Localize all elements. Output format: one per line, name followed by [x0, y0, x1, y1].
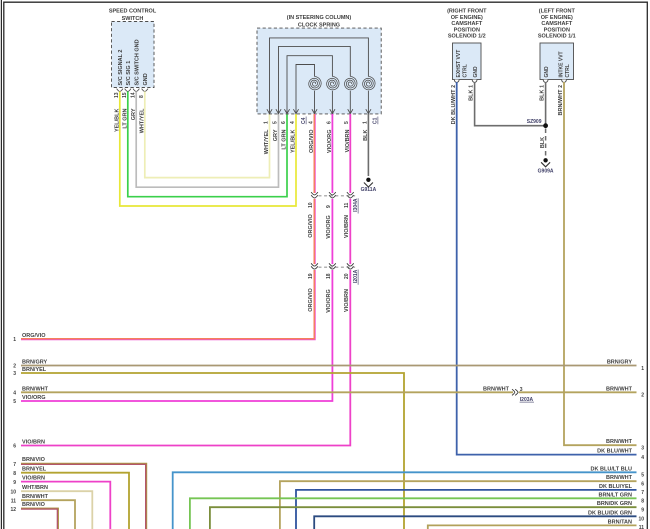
- wire VIO/ORG from I201A down and left to left edge (wire 5): [21, 270, 332, 401]
- svg-text:OF ENGINE): OF ENGINE): [541, 15, 573, 21]
- connector I304A hooks on VIO/ORG: [329, 192, 336, 198]
- wire r7 DK BLU/YEL right edge to bottom edge: [296, 490, 637, 529]
- connector I201A hooks on VIO/ORG: [329, 263, 336, 269]
- label INTKE VVT CTRL: [559, 51, 572, 77]
- svg-text:6: 6: [281, 121, 287, 124]
- solenoid 1/1 pin bump 1: [543, 80, 548, 83]
- wire WHT/YEL switch pin8 to clock spring pin1: [145, 91, 270, 177]
- svg-text:POSITION: POSITION: [454, 27, 480, 33]
- svg-text:19: 19: [308, 273, 314, 279]
- wire BLK clock spring pin1 to ground: [367, 114, 369, 176]
- svg-text:5: 5: [272, 121, 278, 124]
- page frame outer edge line: [0, 0, 2, 529]
- wire 4 BRN/WHT connector I203A to right edge: [519, 391, 637, 393]
- wire YEL/BLK switch pin13 to clock spring pin4: [120, 91, 296, 206]
- svg-text:VIO/ORG: VIO/ORG: [326, 289, 332, 313]
- wire 3 BRN/YEL left edge to bottom edge: [21, 373, 404, 529]
- svg-text:BRN/YEL: BRN/YEL: [22, 367, 47, 373]
- wire r9 BRN/DK GRN right edge to bottom edge: [210, 507, 637, 529]
- svg-text:(RIGHT FRONT: (RIGHT FRONT: [447, 9, 487, 15]
- svg-text:VIO/ORG: VIO/ORG: [22, 395, 46, 401]
- coil 2: [327, 76, 339, 89]
- svg-text:S/C SIGNAL 2: S/C SIGNAL 2: [118, 50, 124, 86]
- wire r11 BRN/TAN right edge to bottom edge: [428, 525, 637, 529]
- wire ORG/VIO between I304A and I201A: [314, 199, 316, 264]
- svg-text:WHT/BRN: WHT/BRN: [22, 485, 48, 491]
- svg-text:11: 11: [11, 498, 17, 504]
- svg-text:LT GRN: LT GRN: [282, 129, 288, 149]
- svg-text:BRN/LT GRN: BRN/LT GRN: [598, 492, 632, 498]
- svg-text:1: 1: [13, 337, 16, 343]
- svg-text:3: 3: [13, 371, 16, 377]
- svg-text:3: 3: [641, 446, 644, 452]
- svg-text:(LEFT FRONT: (LEFT FRONT: [539, 9, 576, 15]
- clock spring internal wire coil1 loop: [296, 65, 315, 114]
- svg-text:1: 1: [362, 121, 368, 124]
- wire BLK solenoid 1/1 pin1 to splice SZ909: [545, 82, 547, 126]
- svg-text:BRN/GRY: BRN/GRY: [22, 360, 47, 366]
- svg-text:4: 4: [13, 391, 16, 397]
- svg-text:SWITCH: SWITCH: [122, 16, 144, 22]
- svg-text:10: 10: [638, 517, 644, 523]
- svg-text:1: 1: [641, 366, 644, 372]
- solenoid 1/1 title: [538, 9, 576, 40]
- svg-text:BRN/WHT: BRN/WHT: [22, 494, 49, 500]
- connector I201A hooks on VIO/BRN: [347, 263, 354, 269]
- svg-text:VIO/BRN: VIO/BRN: [344, 215, 350, 238]
- svg-text:VIO/ORG: VIO/ORG: [326, 215, 332, 239]
- switch pin hook 15: [125, 89, 131, 92]
- svg-text:3: 3: [520, 387, 523, 393]
- svg-text:GND: GND: [143, 73, 149, 85]
- svg-text:OF ENGINE): OF ENGINE): [451, 15, 483, 21]
- clock spring internal wire coil2 bottom lead: [331, 91, 333, 114]
- svg-text:11: 11: [344, 202, 350, 208]
- svg-text:BRN/VIO: BRN/VIO: [22, 457, 46, 463]
- switch pin hook 14: [133, 89, 139, 92]
- wire r5 DK BLU/LT BLU right edge to bottom edge: [173, 472, 637, 529]
- coil 1: [309, 76, 321, 89]
- solenoid 1/2 box: [453, 43, 482, 80]
- svg-text:7: 7: [13, 462, 16, 468]
- splice SZ909: [543, 123, 548, 128]
- svg-text:CAMSHAFT: CAMSHAFT: [451, 21, 482, 27]
- ground G909A symbol: [541, 158, 550, 167]
- connector I304A dashed link line: [319, 195, 358, 197]
- svg-text:7: 7: [641, 490, 644, 496]
- svg-text:ORG/VIO: ORG/VIO: [308, 214, 314, 238]
- connector I201A hooks on ORG/VIO: [311, 263, 318, 269]
- svg-text:BRN/YEL: BRN/YEL: [22, 467, 47, 473]
- speed control switch title: [109, 8, 157, 21]
- svg-text:DK BLU/LT BLU: DK BLU/LT BLU: [591, 466, 632, 472]
- svg-text:VIO/BRN: VIO/BRN: [22, 476, 45, 482]
- wire DK BLU/WHT solenoid 1/2 pin2 down to right edge (wire r4): [457, 82, 637, 455]
- svg-text:4: 4: [641, 455, 644, 461]
- wire 9 VIO/BRN left edge to bottom edge: [21, 482, 110, 529]
- solenoid 1/2 pin bump 2: [454, 80, 459, 83]
- wire VIO/ORG clock spring pin6 down to I304A: [331, 114, 333, 193]
- solenoid 1/2 title: [447, 9, 487, 40]
- wire ORG/VIO clock spring pin4 down to connector I304A: [314, 114, 316, 193]
- svg-text:9: 9: [13, 480, 16, 486]
- wire BLK dashed splice to ground G909A: [545, 129, 547, 158]
- svg-text:BRN/VIO: BRN/VIO: [22, 502, 46, 508]
- wire r10 DK BLU/DK GRN right edge to bottom edge: [314, 516, 636, 529]
- svg-text:S/C SWITCH GND: S/C SWITCH GND: [134, 39, 140, 85]
- svg-text:CTRL: CTRL: [565, 64, 571, 77]
- wire BLK solenoid 1/2 pin1 to splice SZ909: [475, 82, 546, 126]
- label EXHST VVT CTRL: [456, 50, 469, 78]
- coil 3: [345, 76, 357, 89]
- wire VIO/ORG between I304A and I201A: [331, 199, 333, 264]
- wire 4 BRN/WHT left edge to connector I203A: [21, 391, 513, 393]
- svg-text:YEL/BLK: YEL/BLK: [291, 129, 297, 153]
- connector I304A hooks on ORG/VIO: [311, 192, 318, 198]
- svg-text:5: 5: [13, 399, 16, 405]
- svg-text:5: 5: [641, 473, 644, 479]
- svg-text:2: 2: [641, 393, 644, 399]
- svg-text:1: 1: [263, 121, 269, 124]
- solenoid 1/2 pin bump 1: [472, 80, 477, 83]
- svg-text:SPEED CONTROL: SPEED CONTROL: [109, 8, 157, 14]
- svg-text:SZ909: SZ909: [527, 119, 542, 125]
- svg-text:CLOCK SPRING: CLOCK SPRING: [298, 22, 340, 28]
- clock spring bottom arrows into pins: [267, 109, 371, 113]
- svg-text:12: 12: [10, 507, 16, 513]
- switch pin hook 8: [142, 89, 148, 92]
- svg-text:SOLENOID 1/2: SOLENOID 1/2: [448, 34, 486, 40]
- wire LT GRN switch pin15 to clock spring pin6: [128, 91, 287, 196]
- svg-text:BRN/WHT: BRN/WHT: [606, 386, 633, 392]
- svg-text:WHT/YEL: WHT/YEL: [264, 129, 270, 154]
- wire r6 BRN/WHT right edge to bottom edge: [280, 481, 637, 529]
- switch pin hook 13: [117, 89, 123, 92]
- svg-text:BRN/GRY: BRN/GRY: [607, 360, 632, 366]
- wire 7 BRN/VIO left edge to bottom edge: [21, 464, 146, 529]
- wire VIO/BRN between I304A and I201A: [349, 199, 351, 264]
- svg-text:4: 4: [290, 121, 296, 124]
- svg-text:BRN/WHT: BRN/WHT: [483, 386, 510, 392]
- svg-text:2: 2: [13, 364, 16, 370]
- svg-text:BRN/WHT: BRN/WHT: [606, 475, 633, 481]
- svg-text:BRN/WHT: BRN/WHT: [606, 439, 633, 445]
- svg-text:CTRL: CTRL: [463, 64, 469, 77]
- connector I203A hooks: [512, 389, 518, 395]
- clock spring internal wire coil1 bottom lead: [314, 91, 316, 114]
- connector I201A dashed link line: [319, 266, 358, 268]
- ground G911A symbol: [364, 178, 373, 187]
- svg-text:GRY: GRY: [273, 129, 279, 141]
- svg-text:6: 6: [13, 444, 16, 450]
- wire 11 BRN/WHT left edge to bottom edge: [21, 500, 75, 529]
- clock spring internal wire coil2 loop: [287, 56, 332, 114]
- svg-text:BRN/DK GRN: BRN/DK GRN: [597, 501, 632, 507]
- svg-text:G911A: G911A: [361, 187, 377, 193]
- svg-text:5: 5: [344, 121, 350, 124]
- clock spring title: [287, 15, 352, 29]
- svg-text:10: 10: [308, 202, 314, 208]
- svg-text:ORG/VIO: ORG/VIO: [22, 333, 46, 339]
- svg-text:10: 10: [10, 489, 16, 495]
- svg-text:ORG/VIO: ORG/VIO: [308, 288, 314, 312]
- svg-text:VIO/BRN: VIO/BRN: [22, 440, 45, 446]
- wire BRN/WHT solenoid 1/1 pin2 down to right edge (wire r3): [564, 82, 637, 445]
- svg-text:DK BLU/DK GRN: DK BLU/DK GRN: [588, 510, 632, 516]
- wire 12 BRN/VIO left edge to bottom edge: [21, 509, 58, 529]
- svg-text:8: 8: [13, 471, 16, 477]
- clock spring internal wire coil3 loop: [279, 46, 351, 113]
- wire 2 BRN/GRY left to right edge: [21, 365, 637, 367]
- svg-text:GND: GND: [473, 66, 479, 78]
- svg-text:INTKE VVT: INTKE VVT: [559, 51, 565, 77]
- clock spring internal wire coil3 bottom lead: [349, 91, 351, 114]
- wire GRY switch pin14 to clock spring pin5: [136, 91, 278, 187]
- wire r8 BRN/LT GRN right edge to bottom edge: [190, 498, 637, 529]
- svg-text:DK BLU/YEL: DK BLU/YEL: [599, 484, 633, 490]
- svg-text:6: 6: [641, 482, 644, 488]
- svg-text:POSITION: POSITION: [544, 27, 570, 33]
- svg-text:SOLENOID 1/1: SOLENOID 1/1: [538, 34, 576, 40]
- svg-text:11: 11: [639, 525, 645, 529]
- connector I304A hooks on VIO/BRN: [347, 192, 354, 198]
- svg-text:CAMSHAFT: CAMSHAFT: [541, 21, 572, 27]
- solenoid 1/1 pin bump 2: [562, 80, 567, 83]
- svg-text:EXHST VVT: EXHST VVT: [456, 50, 462, 78]
- svg-text:BLK: BLK: [540, 137, 546, 148]
- solenoid 1/1 box: [540, 43, 574, 80]
- svg-text:BRN/WHT: BRN/WHT: [22, 386, 49, 392]
- svg-text:18: 18: [326, 273, 332, 279]
- svg-text:G909A: G909A: [538, 169, 554, 175]
- wire VIO/BRN from I201A down and left to left edge (wire 6): [21, 270, 350, 446]
- svg-text:GND: GND: [544, 66, 550, 78]
- clock spring box: [257, 28, 381, 114]
- wire 10 WHT/BRN left edge to bottom edge: [21, 491, 92, 529]
- coil 4: [363, 76, 375, 89]
- svg-text:9: 9: [641, 508, 644, 514]
- clock spring internal wire coil4 loop: [270, 38, 369, 114]
- wire 8 BRN/YEL left edge to bottom edge: [21, 473, 129, 529]
- svg-text:9: 9: [326, 205, 332, 208]
- svg-text:BRN/TAN: BRN/TAN: [608, 519, 632, 525]
- svg-text:(IN STEERING COLUMN): (IN STEERING COLUMN): [287, 15, 352, 21]
- svg-text:8: 8: [641, 499, 644, 505]
- wire VIO/BRN clock spring pin5 down to I304A: [349, 114, 351, 193]
- svg-text:DK BLU/WHT: DK BLU/WHT: [597, 449, 632, 455]
- svg-text:S/C SIG 1: S/C SIG 1: [126, 61, 132, 86]
- svg-text:VIO/BRN: VIO/BRN: [344, 289, 350, 312]
- svg-text:20: 20: [344, 273, 350, 279]
- speed control switch box: [112, 22, 155, 88]
- wire ORG/VIO from I201A down and left to left edge (wire 1): [21, 270, 315, 339]
- clock spring internal wire coil4 bottom lead: [367, 91, 369, 114]
